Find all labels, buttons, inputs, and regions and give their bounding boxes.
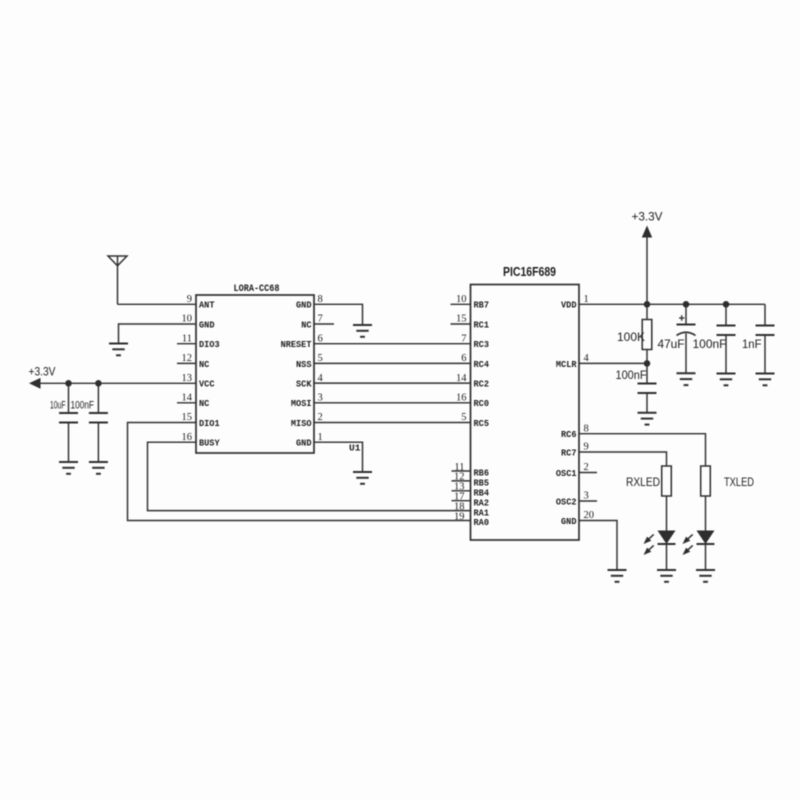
svg-text:RC1: RC1 [474, 319, 490, 330]
PIC pin 17 RA2 [452, 492, 490, 509]
wire OSC1 stub [579, 472, 597, 474]
svg-text:100K: 100K [617, 330, 645, 344]
ground at LORA pin 8 [353, 325, 372, 337]
svg-text:SCK: SCK [296, 379, 312, 390]
wire PIC GND pin 20 to ground [579, 521, 617, 571]
svg-text:NRESET: NRESET [281, 339, 312, 350]
resistor R1 100K [617, 304, 652, 363]
svg-text:LORA-CC68: LORA-CC68 [234, 283, 280, 295]
svg-text:NC: NC [301, 319, 312, 330]
ground at TXLED [696, 570, 715, 582]
PIC pin 6 RC4 [461, 353, 489, 370]
svg-text:GND: GND [296, 438, 312, 449]
PIC pin 12 RB5 [452, 472, 490, 489]
PIC pin 15 RC1 [451, 314, 490, 331]
wire BUSY to RA1 [148, 442, 471, 510]
svg-text:100nF: 100nF [616, 368, 647, 382]
wire MCLR [579, 362, 647, 364]
svg-text:U1: U1 [349, 443, 361, 454]
wire NSS-RC4 [314, 362, 471, 364]
svg-text:GND: GND [561, 516, 577, 527]
svg-text:11: 11 [182, 333, 192, 344]
svg-text:RC4: RC4 [474, 359, 490, 370]
svg-text:RB7: RB7 [474, 300, 490, 311]
svg-text:MCLR: MCLR [556, 359, 577, 370]
svg-text:3: 3 [318, 393, 323, 404]
svg-text:BUSY: BUSY [199, 438, 220, 449]
svg-text:RC0: RC0 [474, 398, 490, 409]
LORA pin 2 MISO [291, 412, 323, 429]
svg-text:19: 19 [454, 511, 465, 522]
ground at LORA pin 1 [353, 472, 372, 484]
power +3.3V (top right) [632, 210, 663, 305]
svg-text:20: 20 [584, 510, 595, 521]
ground at LORA pin 10 [109, 344, 128, 356]
capacitor C3 100nF [616, 363, 657, 412]
label U1 [349, 443, 361, 454]
svg-text:100nF: 100nF [693, 337, 727, 351]
PIC pin 9 RC7 [561, 442, 589, 459]
svg-text:RXLED: RXLED [626, 475, 660, 489]
PIC pin 14 RC2 [456, 373, 489, 390]
PIC pin 20 GND [561, 510, 594, 527]
PIC pin 10 RB7 [451, 294, 490, 311]
PIC pin 4 MCLR [556, 353, 590, 370]
svg-text:10uF: 10uF [50, 400, 66, 412]
wire NRESET-RC3 [314, 343, 471, 345]
LORA pin 16 BUSY [182, 432, 220, 449]
PIC pin 1 VDD [561, 294, 589, 311]
LORA pin 10 GND [182, 314, 215, 331]
svg-text:10: 10 [456, 294, 467, 305]
svg-text:4: 4 [584, 353, 590, 364]
capacitor C1 10uF [50, 383, 78, 462]
svg-text:15: 15 [456, 314, 467, 325]
svg-text:12: 12 [182, 353, 193, 364]
LORA pin 13 VCC [182, 373, 215, 390]
wire OSC2 stub [579, 500, 597, 502]
wire SCK-RC2 [314, 382, 471, 384]
PIC pin 5 RC5 [461, 412, 489, 429]
PIC pin 7 RC3 [461, 333, 489, 350]
svg-text:RC2: RC2 [474, 379, 490, 390]
svg-text:2: 2 [584, 462, 589, 473]
svg-text:MISO: MISO [291, 418, 312, 429]
IC U1 LORA-CC68 body [196, 283, 314, 453]
svg-text:DIO1: DIO1 [199, 418, 220, 429]
svg-text:VDD: VDD [561, 300, 577, 311]
svg-text:GND: GND [199, 319, 215, 330]
svg-text:7: 7 [461, 333, 466, 344]
svg-text:RC5: RC5 [474, 418, 490, 429]
svg-text:GND: GND [296, 300, 312, 311]
PIC pin 19 RA0 [454, 511, 489, 528]
LORA pin 14 NC [177, 393, 210, 410]
svg-text:6: 6 [461, 353, 466, 364]
IC U2 PIC16F689 body [471, 264, 580, 540]
wire RC7 to RXLED [579, 452, 667, 466]
resistor R2 (RXLED) [626, 466, 671, 496]
PIC pin 2 OSC1 [556, 462, 589, 479]
ground at C6 [756, 374, 775, 386]
svg-text:16: 16 [182, 432, 193, 443]
svg-text:PIC16F689: PIC16F689 [503, 264, 556, 279]
capacitor C6 1nF [742, 304, 775, 373]
svg-text:16: 16 [456, 393, 467, 404]
svg-text:2: 2 [318, 412, 323, 423]
LORA pin 5 NSS [296, 353, 323, 370]
power +3.3V (left) [29, 365, 56, 389]
svg-text:14: 14 [182, 393, 193, 404]
svg-text:3: 3 [584, 491, 589, 502]
junction VDD/100K [644, 301, 651, 308]
svg-text:+3.3V: +3.3V [29, 365, 56, 379]
PIC pin 11 RB6 [452, 462, 490, 479]
svg-text:15: 15 [182, 412, 193, 423]
LORA pin 6 NRESET [281, 333, 323, 350]
ground at C5 [717, 374, 736, 386]
svg-text:100nF: 100nF [71, 400, 95, 412]
ground at PIC pin 20 [608, 570, 627, 582]
wire RC6 to TXLED [579, 434, 706, 466]
LORA pin 8 GND [296, 294, 323, 311]
wire LORA pin 8 GND to ground [314, 304, 363, 325]
junction (100nF tap) [95, 380, 102, 387]
capacitor C4 47uF (polarised) [658, 304, 696, 373]
wire antenna to LORA ANT pin 9 [118, 303, 197, 305]
svg-text:VCC: VCC [199, 379, 215, 390]
LORA pin 7 NC [301, 314, 323, 331]
PIC pin 8 RC6 [561, 423, 589, 440]
wire LORA pin 7 NC stub [314, 323, 334, 325]
LED RXLED [644, 496, 676, 570]
LORA pin 4 SCK [296, 373, 324, 390]
svg-text:9: 9 [584, 442, 589, 453]
junction VDD/47uF [683, 301, 690, 308]
ground at C1 [59, 462, 78, 474]
ground at C3 [638, 413, 657, 425]
PIC pin 18 RA1 [454, 501, 489, 518]
wire LORA pin 1 GND to ground [314, 442, 363, 472]
svg-text:8: 8 [318, 294, 323, 305]
LORA pin 12 NC [177, 353, 210, 370]
svg-text:MOSI: MOSI [291, 398, 312, 409]
svg-text:9: 9 [187, 294, 192, 305]
wire MISO-RC5 [314, 422, 471, 424]
svg-text:10: 10 [182, 314, 193, 325]
ground at C2 [89, 462, 108, 474]
svg-text:1: 1 [584, 294, 589, 305]
svg-text:RC7: RC7 [561, 447, 577, 458]
LED TXLED [683, 496, 715, 570]
ground at RXLED [657, 570, 676, 582]
LORA pin 11 DIO3 [177, 333, 220, 350]
LORA pin 3 MOSI [291, 393, 323, 410]
wire +3.3V to LORA VCC pin 13 [40, 382, 196, 384]
LORA pin 9 ANT [187, 294, 215, 311]
wire DIO1 to RA0 [128, 423, 471, 521]
junction MCLR/100nF [644, 360, 651, 367]
svg-text:RA0: RA0 [474, 517, 490, 528]
capacitor C2 100nF [71, 383, 108, 462]
LORA pin 15 DIO1 [182, 412, 220, 429]
svg-text:NC: NC [199, 398, 210, 409]
svg-text:14: 14 [456, 373, 467, 384]
capacitor C5 100nF [693, 304, 736, 373]
svg-text:47uF: 47uF [658, 337, 685, 351]
svg-text:1nF: 1nF [742, 337, 762, 351]
svg-text:13: 13 [182, 373, 193, 384]
svg-text:OSC1: OSC1 [556, 468, 577, 479]
svg-text:5: 5 [318, 353, 323, 364]
junction (10uF tap) [65, 380, 72, 387]
junction VDD/100nF [723, 301, 730, 308]
PIC pin 16 RC0 [456, 393, 489, 410]
svg-text:1: 1 [318, 432, 323, 443]
svg-text:TXLED: TXLED [724, 475, 754, 489]
svg-text:7: 7 [318, 314, 323, 325]
svg-text:DIO3: DIO3 [199, 339, 220, 350]
PIC pin 3 OSC2 [556, 491, 589, 508]
svg-text:+3.3V: +3.3V [632, 210, 663, 224]
antenna ANT1 [108, 256, 127, 304]
svg-text:RC3: RC3 [474, 339, 490, 350]
resistor R3 (TXLED) [701, 466, 755, 496]
wire LORA pin 10 GND to ground [119, 324, 197, 344]
wire VDD rail [579, 303, 765, 305]
LORA pin 1 GND [296, 432, 323, 449]
svg-text:8: 8 [584, 423, 589, 434]
svg-text:5: 5 [461, 412, 466, 423]
svg-text:RC6: RC6 [561, 429, 577, 440]
svg-text:NC: NC [199, 359, 210, 370]
wire MOSI-RC0 [314, 402, 471, 404]
PIC pin 13 RB4 [452, 482, 490, 499]
svg-text:ANT: ANT [199, 300, 215, 311]
svg-text:4: 4 [318, 373, 324, 384]
ground at C4 [677, 373, 696, 385]
svg-text:6: 6 [318, 333, 323, 344]
svg-text:NSS: NSS [296, 359, 312, 370]
svg-text:OSC2: OSC2 [556, 496, 577, 507]
